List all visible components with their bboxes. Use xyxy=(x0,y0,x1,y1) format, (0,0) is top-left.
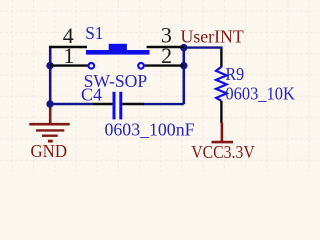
svg-text:GND: GND xyxy=(31,141,68,161)
capacitor C4 plate 2 xyxy=(119,92,122,120)
resistor R9 top pin xyxy=(220,49,222,68)
ground symbol bar 4 xyxy=(48,140,53,143)
switch S1 contact circle pin1 xyxy=(89,63,95,69)
svg-text:2: 2 xyxy=(161,43,172,68)
wire right vertical (pin3/pin2 down) xyxy=(183,46,186,104)
resistor R9 zigzag body xyxy=(216,67,227,101)
svg-text:R9: R9 xyxy=(226,64,245,84)
svg-text:VCC3.3V: VCC3.3V xyxy=(191,142,254,162)
svg-text:0603_100nF: 0603_100nF xyxy=(105,119,195,139)
svg-text:0603_10K: 0603_10K xyxy=(225,83,295,103)
switch S1 pin 4 xyxy=(49,46,87,48)
junction left wire/GND/C4 xyxy=(46,100,53,107)
wire C4 right to right vertical xyxy=(144,103,184,105)
capacitor C4 plate 1 xyxy=(113,92,116,120)
capacitor C4 right pin xyxy=(122,103,144,105)
capacitor C4 left pin xyxy=(93,103,112,105)
svg-text:UserINT: UserINT xyxy=(181,26,244,46)
switch S1 pin 1 xyxy=(50,64,88,66)
switch S1 pin 3 xyxy=(147,46,184,48)
junction pin2/right wire xyxy=(180,62,187,69)
wire GND branch horizontal to C4 xyxy=(49,103,94,105)
switch S1 button bump xyxy=(109,44,127,50)
wire left vertical (pin4/pin1 to GND) xyxy=(49,46,52,104)
ground symbol bar 2 xyxy=(36,129,64,131)
switch S1 contact circle pin2 xyxy=(138,63,144,69)
power symbol VCC3.3V bar xyxy=(212,141,234,144)
svg-text:C4: C4 xyxy=(81,85,102,105)
resistor R9 bottom pin xyxy=(220,101,222,123)
switch S1 pin 2 xyxy=(145,64,184,66)
ground symbol bar 3 xyxy=(42,134,58,136)
switch S1 actuator bar xyxy=(86,50,150,55)
svg-text:S1: S1 xyxy=(85,23,103,43)
svg-text:1: 1 xyxy=(63,43,74,68)
wire top right to R9 xyxy=(184,46,223,48)
ground symbol bar 1 xyxy=(29,123,69,126)
power symbol VCC3.3V stem xyxy=(221,123,224,141)
junction pin3/UserINT wire xyxy=(180,44,187,51)
ground symbol stem xyxy=(49,103,52,123)
junction pin1/left wire xyxy=(46,62,53,69)
